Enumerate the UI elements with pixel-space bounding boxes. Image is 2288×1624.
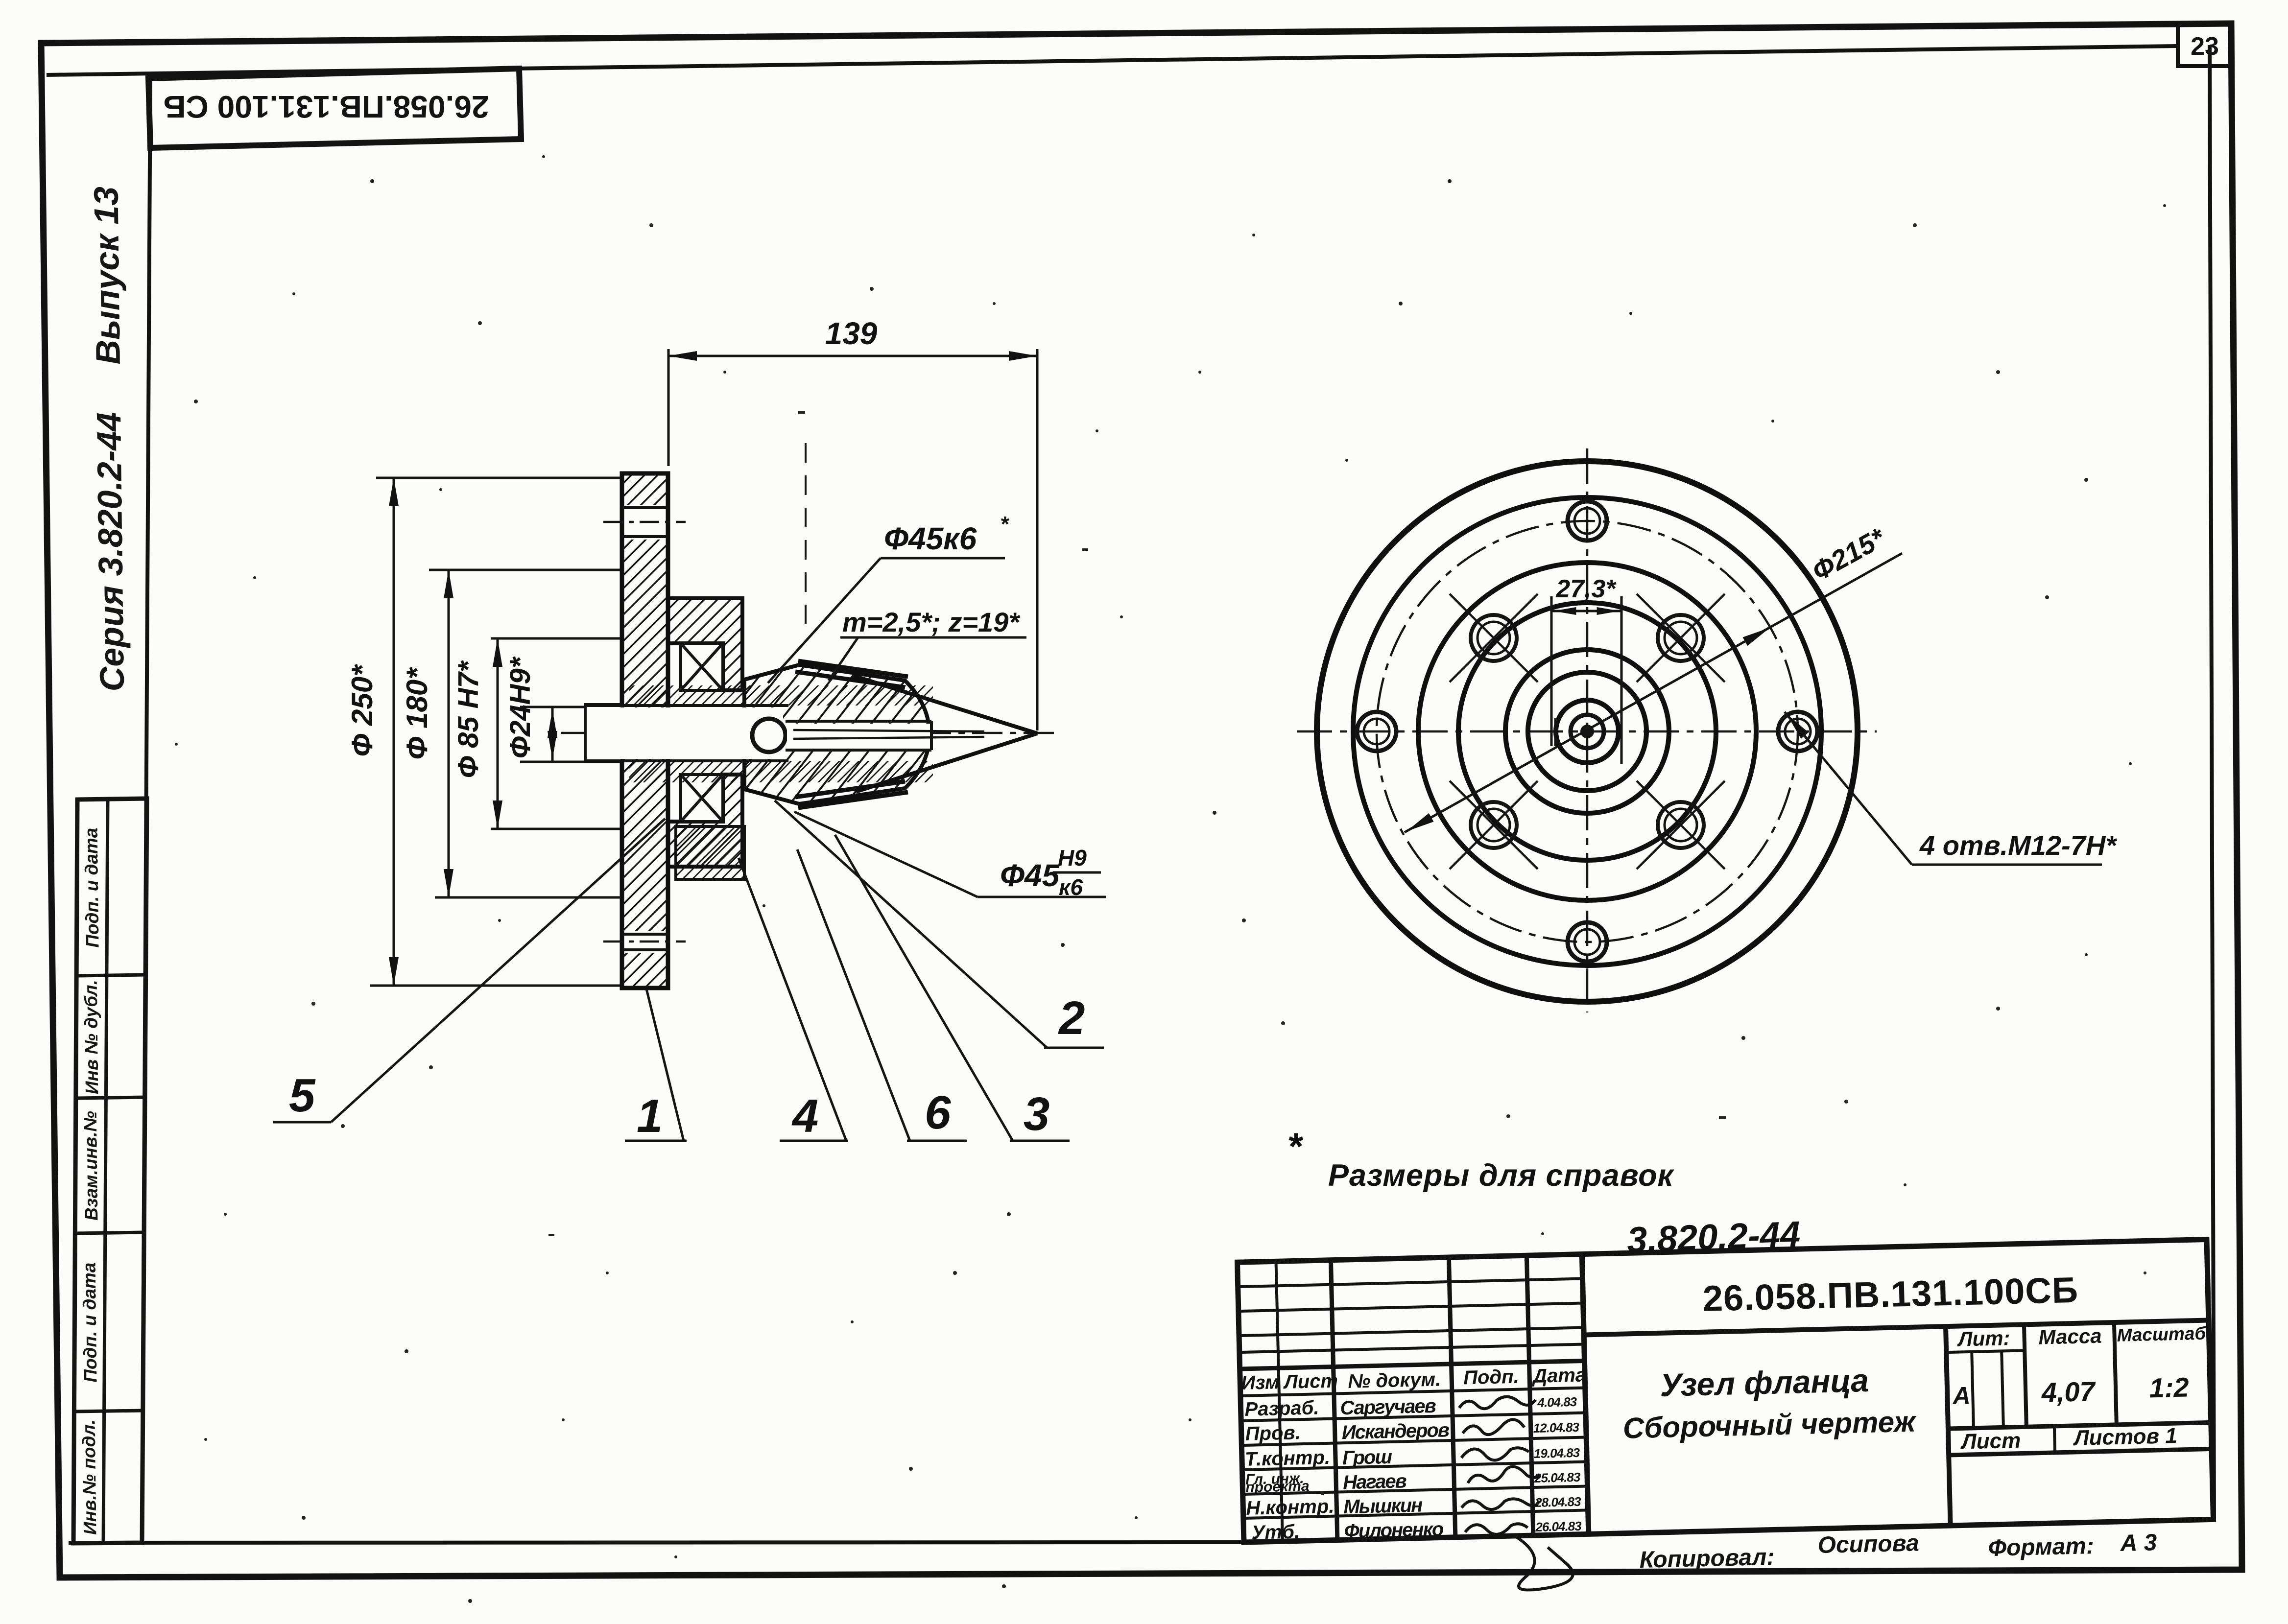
bolt hole right [1778, 712, 1817, 751]
label Ф45 H9/к6 [794, 812, 1106, 900]
svg-text:Масса: Масса [2038, 1324, 2102, 1349]
svg-text:4,07: 4,07 [2041, 1376, 2097, 1408]
part leader 1 [625, 989, 687, 1142]
label m=2,5 z=19 [829, 607, 1026, 681]
sidebar label column line [103, 799, 108, 1543]
dimension Ф24Н9 [520, 707, 621, 762]
slot lines [793, 730, 984, 731]
svg-text:Лист: Лист [1960, 1429, 2021, 1454]
part leader 4 [739, 858, 848, 1142]
bolt hole left [1357, 712, 1396, 751]
svg-text:Т.контр.: Т.контр. [1244, 1447, 1330, 1470]
staff role labels [1243, 1397, 1335, 1544]
scan speckles [224, 155, 2166, 1603]
dimension Ф180 [429, 570, 642, 897]
svg-text:А: А [1952, 1382, 1971, 1410]
svg-text:*: * [1287, 1125, 1304, 1168]
svg-text:Дата: Дата [1531, 1364, 1587, 1387]
CROSS-SECTION VIEW [273, 316, 1106, 1142]
hub lower block [668, 775, 742, 867]
hub upper block [668, 598, 742, 690]
svg-text:Н.контр.: Н.контр. [1246, 1496, 1335, 1519]
svg-text:Пров.: Пров. [1245, 1422, 1301, 1445]
svg-text:Н9: Н9 [1058, 845, 1087, 871]
svg-text:26.04.83: 26.04.83 [1535, 1519, 1582, 1534]
tapped hole M12 lower-left [1450, 781, 1538, 869]
bolt hole bottom [1568, 922, 1607, 962]
shaft bore [585, 706, 788, 761]
bolt hole centerline bottom [603, 941, 686, 943]
svg-text:19.04.83: 19.04.83 [1534, 1445, 1580, 1461]
keyway notch [1554, 718, 1558, 746]
svg-text:6: 6 [925, 1086, 951, 1139]
svg-text:А 3: А 3 [2120, 1530, 2157, 1556]
vertical centerline [1586, 448, 1589, 1012]
bore white fill [587, 707, 783, 759]
lit massa masshtab header [1946, 1320, 2212, 1455]
svg-text:Филоненко: Филоненко [1344, 1518, 1444, 1542]
svg-text:Лит:: Лит: [1956, 1326, 2010, 1351]
part leader 6 [797, 849, 967, 1141]
center dot [1580, 725, 1594, 738]
svg-text:Ф 85 Н7*: Ф 85 Н7* [453, 660, 484, 778]
inner frame bottom line [69, 1519, 2214, 1543]
svg-text:Разраб.: Разраб. [1244, 1397, 1319, 1420]
svg-text:3: 3 [1024, 1088, 1049, 1140]
svg-text:26.058.ПВ.131.100СБ: 26.058.ПВ.131.100СБ [1702, 1270, 2079, 1319]
header row line [1240, 1361, 1585, 1369]
circle hub [1418, 563, 1756, 900]
keyway circle [1556, 700, 1619, 763]
svg-text:1:2: 1:2 [2149, 1371, 2189, 1403]
svg-text:Формат:: Формат: [1988, 1533, 2095, 1561]
shaft hatched band upper [629, 685, 933, 706]
svg-text:Узел фланца: Узел фланца [1660, 1362, 1869, 1403]
label Ф45к6 [768, 512, 1009, 683]
header labels [1241, 1364, 1587, 1395]
svg-text:139: 139 [825, 316, 878, 351]
dates [1532, 1394, 1582, 1534]
gear strip top [795, 661, 908, 687]
outer circle Ф250 [1317, 461, 1858, 1002]
staff row lines [1240, 1388, 1588, 1518]
svg-text:1: 1 [637, 1090, 663, 1142]
tapped hole M12 upper-left [1450, 594, 1538, 682]
svg-text:Нагаев: Нагаев [1343, 1470, 1407, 1493]
svg-text:Сборочный чертеж: Сборочный чертеж [1622, 1405, 1917, 1445]
screw shank white area [787, 724, 930, 749]
svg-text:Утб.: Утб. [1251, 1521, 1300, 1543]
screw head circle [752, 719, 786, 752]
svg-text:Серия 3.820.2-44 Выпуск 1: Серия 3.820.2-44 Выпуск 13 [87, 186, 131, 691]
svg-text:4.04.83: 4.04.83 [1537, 1394, 1577, 1410]
dimension 27,3 [1551, 596, 1621, 764]
gear strip bottom [795, 781, 908, 808]
svg-text:Ф45к6: Ф45к6 [884, 521, 977, 556]
inner frame left line [142, 74, 150, 1543]
staff names [1340, 1395, 1452, 1542]
bolt hole centerline top [603, 521, 686, 523]
svg-text:Ф24Н9*: Ф24Н9* [504, 656, 536, 758]
doc number cell line [1584, 1320, 2209, 1335]
svg-text:Подп. и дата: Подп. и дата [81, 827, 103, 948]
sidebar table outline [73, 799, 147, 1543]
svg-text:Ф45: Ф45 [1000, 858, 1060, 893]
title/right divider [1946, 1326, 1951, 1526]
SIDEBAR [73, 799, 147, 1543]
svg-text:Инв № дубл.: Инв № дубл. [81, 980, 102, 1094]
left shaft boss [585, 705, 622, 761]
tapped hole M12 upper-right [1637, 594, 1725, 682]
svg-text:23: 23 [2191, 32, 2219, 61]
reserve row lines [1238, 1279, 1584, 1353]
svg-text:Подп.: Подп. [1463, 1366, 1519, 1389]
signatures [1459, 1395, 1573, 1592]
svg-text:Копировал:: Копировал: [1639, 1544, 1775, 1573]
svg-text:Мышкин: Мышкин [1343, 1494, 1423, 1518]
circle Ф55 [1528, 672, 1646, 791]
svg-text:№ докум.: № докум. [1348, 1368, 1441, 1392]
bolt circle Ф215 dash-dot [1377, 521, 1798, 942]
CIRCULAR VIEW [1297, 448, 2117, 1012]
bolt hole top [1568, 501, 1607, 541]
title block outer box [1238, 1240, 2214, 1542]
svg-text:27,3*: 27,3* [1555, 575, 1617, 603]
svg-text:Лист: Лист [1283, 1370, 1338, 1393]
dimension 139 [668, 349, 1037, 730]
screw shank [786, 721, 931, 750]
part leader 3 [835, 835, 1070, 1141]
more scan speckles [175, 292, 2132, 1588]
svg-text:28.04.83: 28.04.83 [1534, 1494, 1581, 1510]
sidebar row lines [77, 975, 146, 976]
svg-text:Саргучаев: Саргучаев [1340, 1395, 1436, 1419]
svg-text:26.058.ПВ.131.100 СБ: 26.058.ПВ.131.100 СБ [164, 89, 489, 124]
axis centerline [561, 732, 1060, 734]
svg-text:12.04.83: 12.04.83 [1533, 1420, 1579, 1436]
bottom margin labels [1639, 1530, 2157, 1573]
locknut dark block [676, 826, 744, 879]
left table column lines [1276, 1254, 1589, 1542]
4 holes M12 label [1783, 711, 2117, 865]
circle rim [1353, 497, 1821, 965]
inner frame right line [2210, 45, 2214, 1519]
svg-text:Ф215*: Ф215* [1807, 521, 1890, 587]
center ring [1571, 715, 1604, 748]
shaft hatched band lower [629, 761, 933, 782]
tapped hole M12 lower-right [1637, 781, 1725, 869]
svg-text:Грош: Грош [1342, 1446, 1392, 1469]
bullet part 2 body [744, 665, 929, 804]
svg-text:*: * [1000, 512, 1009, 536]
circle boss [1458, 603, 1716, 860]
svg-text:25.04.83: 25.04.83 [1534, 1470, 1581, 1485]
Ф215 leader line [1405, 553, 1902, 832]
svg-text:Подп. и дата: Подп. и дата [79, 1262, 101, 1383]
horizontal centerline [1297, 730, 1877, 733]
svg-text:Взам.инв.№: Взам.инв.№ [80, 1111, 102, 1221]
page number box [2178, 24, 2232, 66]
circle Ф85 [1505, 650, 1669, 813]
flange plate part 1 [622, 473, 668, 988]
dimension Ф250 [370, 478, 633, 986]
dimension Ф85 Н7 [491, 638, 646, 829]
gear pitch dashed vertical line [805, 443, 807, 629]
svg-text:Листов 1: Листов 1 [2073, 1424, 2177, 1450]
top-left stamp box (upside down doc number) [148, 69, 521, 148]
inner frame top line [47, 46, 2178, 75]
svg-text:Масштаб: Масштаб [2117, 1323, 2207, 1345]
svg-text:4 отв.М12-7Н*: 4 отв.М12-7Н* [1919, 830, 2117, 861]
cone upper line [853, 676, 1037, 733]
part leader 5 [273, 819, 665, 1122]
svg-text:Осипова: Осипова [1817, 1530, 1919, 1558]
TITLE BLOCK [1238, 1240, 2215, 1597]
svg-text:Инв.№ подл.: Инв.№ подл. [79, 1419, 100, 1535]
svg-text:Размеры для справок: Размеры для справок [1328, 1158, 1675, 1193]
svg-text:5: 5 [289, 1069, 316, 1122]
cone lower line [856, 733, 1037, 792]
bearing upper [681, 643, 723, 690]
svg-text:Ф 250*: Ф 250* [346, 664, 379, 757]
svg-text:Искандеров: Искандеров [1341, 1419, 1450, 1443]
svg-text:m=2,5*; z=19*: m=2,5*; z=19* [842, 607, 1020, 637]
bearing lower [681, 775, 723, 822]
part leader 2 [775, 800, 1104, 1048]
svg-text:2: 2 [1058, 992, 1085, 1044]
NOTES [1287, 1125, 1801, 1260]
svg-text:Ф 180*: Ф 180* [401, 667, 433, 760]
svg-text:Изм: Изм [1241, 1371, 1280, 1394]
svg-text:4: 4 [791, 1090, 818, 1142]
svg-text:проекта: проекта [1245, 1478, 1310, 1496]
